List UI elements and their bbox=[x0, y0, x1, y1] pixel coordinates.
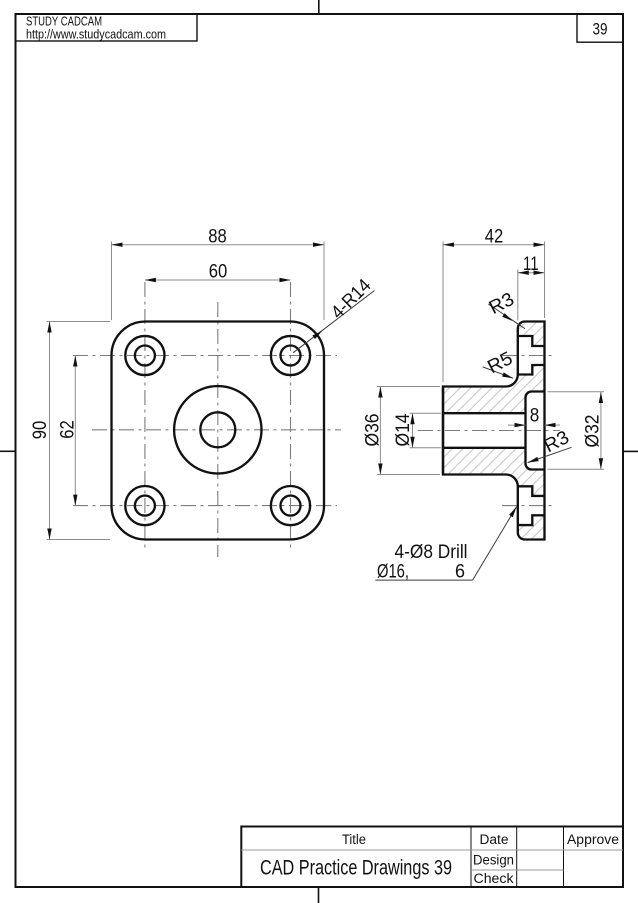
centerline vertical main bbox=[217, 302, 219, 557]
logo box bbox=[16, 14, 198, 41]
centerline horizontal main bbox=[92, 429, 341, 431]
dimension 60 bbox=[145, 279, 291, 281]
svg-text:Design: Design bbox=[473, 853, 514, 868]
dimension 42 bbox=[443, 242, 545, 383]
page number box bbox=[577, 14, 623, 42]
counterbore top bbox=[518, 336, 545, 375]
label 4-R14 with leader bbox=[293, 291, 375, 353]
svg-text:60: 60 bbox=[209, 261, 228, 282]
section outer profile bbox=[443, 322, 545, 540]
svg-text:4-Ø8 Drill: 4-Ø8 Drill bbox=[395, 542, 468, 563]
svg-text:Ø14: Ø14 bbox=[393, 413, 414, 446]
plate outline rounded square bbox=[112, 322, 325, 540]
dimension diameter 36 bbox=[377, 387, 440, 475]
bolt hole bottom-left bbox=[125, 486, 164, 525]
dimension diameter 14 bbox=[410, 413, 442, 448]
dimension 90 bbox=[47, 322, 111, 540]
center hole inner circle bbox=[200, 412, 235, 447]
bore bottom edge bbox=[443, 447, 526, 449]
dimension diameter 32 bbox=[548, 392, 605, 470]
bottom centering mark bbox=[318, 887, 320, 903]
svg-text:90: 90 bbox=[30, 421, 51, 440]
left centering mark bbox=[0, 450, 16, 452]
recess (spotface) profile bbox=[526, 392, 545, 470]
centerline bolt row bottom bbox=[73, 505, 337, 507]
bolt hole bottom-right bbox=[271, 486, 310, 525]
svg-text:Ø16,: Ø16, bbox=[377, 562, 409, 583]
top centering mark bbox=[318, 0, 320, 14]
svg-text:8: 8 bbox=[530, 406, 540, 427]
bolt hole top-right bbox=[271, 336, 310, 375]
bore top edge bbox=[443, 412, 526, 414]
label R3 bottom with leader bbox=[528, 447, 572, 462]
svg-text:88: 88 bbox=[208, 226, 227, 247]
dimension 11 bbox=[518, 270, 545, 321]
bolt hole top-left bbox=[125, 336, 164, 375]
centerline bolt col right bbox=[290, 282, 292, 550]
counterbore bottom bbox=[518, 486, 545, 525]
centerline bolt row top bbox=[73, 355, 337, 357]
svg-text:Ø32: Ø32 bbox=[582, 415, 603, 448]
svg-text:6: 6 bbox=[455, 562, 465, 583]
section bolt centerline bottom bbox=[502, 505, 555, 507]
svg-text:Date: Date bbox=[480, 832, 509, 847]
dimension 8 bbox=[508, 424, 560, 426]
centerline bolt col left bbox=[144, 282, 146, 550]
svg-text:11: 11 bbox=[523, 254, 539, 275]
hub left face bbox=[442, 387, 444, 475]
svg-text:http://www.studycadcam.com: http://www.studycadcam.com bbox=[26, 27, 166, 42]
center hole outer circle bbox=[174, 386, 261, 473]
svg-text:39: 39 bbox=[593, 20, 608, 39]
svg-text:62: 62 bbox=[58, 420, 79, 439]
right centering mark bbox=[623, 450, 638, 452]
svg-text:42: 42 bbox=[485, 226, 504, 247]
svg-text:Ø36: Ø36 bbox=[362, 414, 383, 447]
section centerline horizontal bbox=[418, 430, 560, 432]
svg-text:Title: Title bbox=[342, 832, 366, 847]
section hatching (material region minus holes) bbox=[443, 322, 545, 540]
dimension 62 bbox=[74, 356, 76, 506]
dimension 88 bbox=[112, 242, 325, 321]
title block bbox=[241, 827, 623, 888]
label R5 with leader bbox=[483, 367, 514, 378]
svg-text:Check: Check bbox=[474, 871, 514, 886]
svg-text:CAD Practice Drawings 39: CAD Practice Drawings 39 bbox=[260, 857, 452, 880]
section bolt centerline top bbox=[502, 355, 555, 357]
label R3 top with leader bbox=[488, 304, 525, 329]
svg-text:Approve: Approve bbox=[567, 832, 619, 847]
